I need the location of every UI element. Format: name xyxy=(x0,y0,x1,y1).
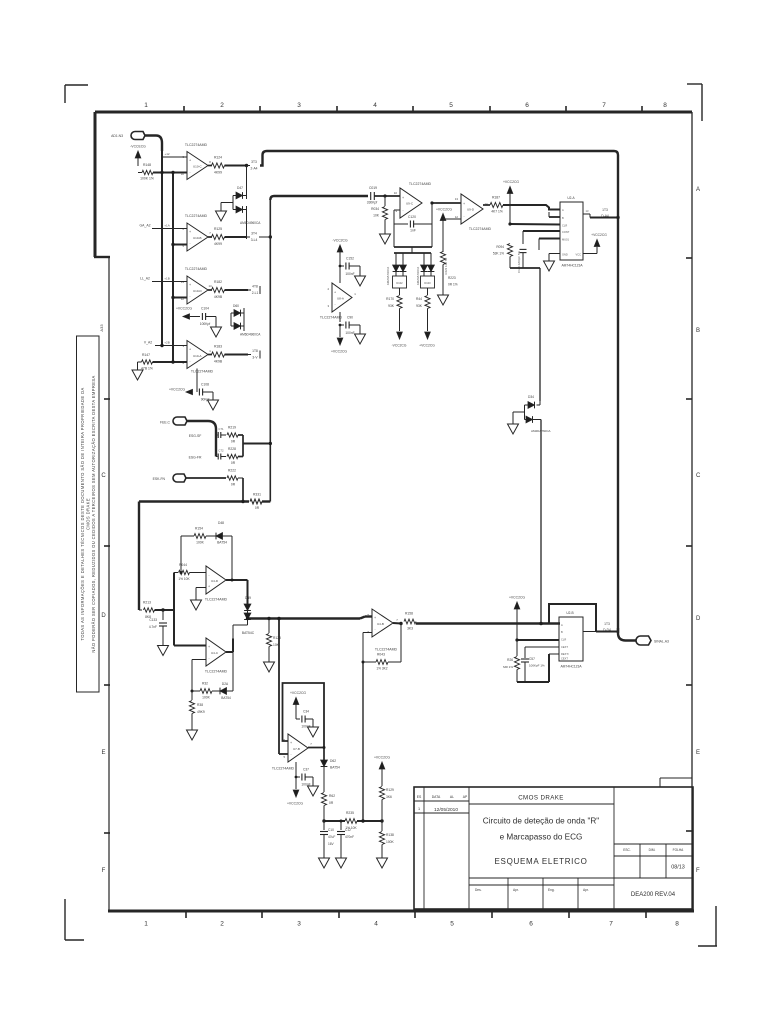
svg-text:R044: R044 xyxy=(179,563,187,567)
svg-text:4K9B: 4K9B xyxy=(214,295,223,299)
wire clamp to trigger node xyxy=(540,420,542,625)
svg-text:93K: 93K xyxy=(416,304,423,308)
diode D62 xyxy=(321,760,328,767)
svg-text:-: - xyxy=(189,170,190,174)
svg-text:e Marcapasso do ECG: e Marcapasso do ECG xyxy=(500,833,583,842)
svg-text:U2-B: U2-B xyxy=(566,611,573,615)
wire R044 to U4-D xyxy=(190,572,207,574)
svg-text:3T4: 3T4 xyxy=(251,232,257,236)
svg-text:10: 10 xyxy=(394,191,398,195)
svg-text:100Kpf: 100Kpf xyxy=(200,322,211,326)
svg-text:R32: R32 xyxy=(202,682,208,686)
wire CONT pin xyxy=(523,230,560,232)
ground D47 xyxy=(216,211,227,221)
op-amp U4-B xyxy=(372,609,393,637)
svg-text:C71: C71 xyxy=(218,427,224,431)
connector SINAL.A3 xyxy=(636,636,651,645)
connector AD1.N3 xyxy=(131,132,145,140)
wire D47 to ground xyxy=(221,202,233,204)
svg-text:SINAL.A3: SINAL.A3 xyxy=(654,640,669,644)
svg-text:+VCC2CG: +VCC2CG xyxy=(331,350,347,354)
svg-text:7: 7 xyxy=(609,921,613,928)
wire clamp rail xyxy=(394,252,431,254)
wire R331 to vertical bus xyxy=(262,500,270,502)
wire U4-B output xyxy=(393,622,401,625)
svg-text:4K99: 4K99 xyxy=(214,171,222,175)
svg-text:100K: 100K xyxy=(386,840,395,844)
svg-text:+: + xyxy=(374,616,376,620)
op-amp U4-D xyxy=(206,566,226,594)
svg-text:1nF: 1nF xyxy=(410,229,416,233)
svg-text:+: + xyxy=(189,159,191,163)
svg-text:B: B xyxy=(696,328,700,334)
wire R125 to node xyxy=(225,236,247,238)
svg-text:Circuito de deteção de ond: Circuito de deteção de onda "R" xyxy=(483,817,600,826)
svg-text:8: 8 xyxy=(675,921,679,928)
wire R170 down xyxy=(399,309,401,332)
svg-text:C37: C37 xyxy=(303,768,309,772)
wire U8-A supply xyxy=(339,266,341,283)
svg-text:+VCC2CG: +VCC2CG xyxy=(591,233,607,237)
resistor R094 xyxy=(507,244,512,257)
svg-text:CMOS DRAKE: CMOS DRAKE xyxy=(518,795,564,802)
wire ESG join vertical xyxy=(242,435,244,457)
wire follower output down xyxy=(323,748,325,761)
wire R228 right xyxy=(238,456,243,458)
svg-text:CLR: CLR xyxy=(562,224,567,228)
ground C10 xyxy=(319,858,330,868)
input bus vertical 2 xyxy=(172,173,174,363)
svg-text:4: 4 xyxy=(373,102,377,109)
svg-text:DEA200 REV.04: DEA200 REV.04 xyxy=(631,892,676,898)
svg-text:D60: D60 xyxy=(233,304,239,308)
svg-text:+: + xyxy=(463,202,465,206)
svg-text:U10-A: U10-A xyxy=(193,354,202,358)
svg-text:C120: C120 xyxy=(408,215,416,219)
svg-text:3: 3 xyxy=(297,102,301,109)
svg-text:U4-D: U4-D xyxy=(211,579,219,583)
svg-text:100K: 100K xyxy=(202,696,211,700)
diode D102 a xyxy=(395,253,397,265)
svg-text:U4-B: U4-B xyxy=(377,622,384,626)
svg-text:TLC2274AMD: TLC2274AMD xyxy=(272,767,295,771)
svg-text:Apr.: Apr. xyxy=(583,888,589,892)
svg-text:C10: C10 xyxy=(328,828,334,832)
wire R124 to node xyxy=(225,165,247,167)
svg-text:0R 1%: 0R 1% xyxy=(448,283,458,287)
svg-text:A33: A33 xyxy=(99,324,104,332)
ground R38 xyxy=(187,730,198,740)
corner mark top-left xyxy=(65,84,88,86)
op-amp U4-C xyxy=(206,638,226,666)
diode D60 b xyxy=(234,323,241,330)
diode array D102 body xyxy=(393,276,407,288)
svg-text:R187: R187 xyxy=(492,196,500,200)
resistor R213 xyxy=(139,609,142,611)
svg-text:U9-C: U9-C xyxy=(406,202,414,206)
resistor R222 xyxy=(227,476,238,480)
diode D34 a xyxy=(539,401,541,405)
svg-text:C57: C57 xyxy=(529,657,535,661)
svg-text:E: E xyxy=(101,750,105,756)
svg-text:R148: R148 xyxy=(143,163,151,167)
capacitor C37 xyxy=(296,776,300,778)
svg-text:D2A: D2A xyxy=(222,682,229,686)
resistor R223 xyxy=(440,252,445,265)
svg-text:2-A4: 2-A4 xyxy=(251,167,258,171)
svg-text:B: B xyxy=(561,630,563,634)
resistor R158 xyxy=(404,619,416,624)
svg-text:R147: R147 xyxy=(142,353,150,357)
svg-text:93K: 93K xyxy=(388,304,395,308)
title block right column top extension xyxy=(660,777,692,779)
signature cells xyxy=(507,878,509,909)
svg-text:R129: R129 xyxy=(386,788,394,792)
svg-text:R043: R043 xyxy=(377,653,385,657)
svg-text:3K3: 3K3 xyxy=(407,627,413,631)
svg-text:-: - xyxy=(189,241,190,245)
svg-text:0R: 0R xyxy=(255,506,260,510)
resistor R182 xyxy=(212,287,225,292)
wire U10-C output to D47 xyxy=(246,166,248,193)
wire inverting input U10-D xyxy=(173,297,187,299)
svg-text:R138: R138 xyxy=(386,833,394,837)
svg-text:100K 1%: 100K 1% xyxy=(140,177,154,181)
svg-text:R183: R183 xyxy=(214,345,222,349)
wire FEE.C xyxy=(187,421,216,457)
wire C108 to ground xyxy=(203,391,213,393)
svg-text:+VCC2CG: +VCC2CG xyxy=(419,344,435,348)
svg-text:TLC2274AMD: TLC2274AMD xyxy=(409,182,432,186)
diode D103 b xyxy=(430,253,432,265)
svg-text:U8-A: U8-A xyxy=(337,297,344,301)
net label 4T8 2-L1 xyxy=(248,289,251,291)
feedback resistor R32 xyxy=(200,689,212,694)
wire U4-C output xyxy=(226,651,233,653)
resistor R044 xyxy=(179,570,190,574)
svg-text:R331: R331 xyxy=(253,493,261,497)
wire follower input xyxy=(279,753,288,755)
resistor R228 xyxy=(221,456,226,458)
svg-text:D47: D47 xyxy=(237,186,243,190)
svg-text:8: 8 xyxy=(663,102,667,109)
svg-text:-: - xyxy=(189,359,190,363)
svg-text:2: 2 xyxy=(220,102,224,109)
svg-text:TLC2274AMD: TLC2274AMD xyxy=(185,143,208,147)
svg-text:AM2DA760CA: AM2DA760CA xyxy=(416,267,420,285)
svg-text:R222: R222 xyxy=(228,469,236,473)
svg-text:3-V: 3-V xyxy=(252,356,258,360)
bottom column ticks xyxy=(185,911,187,918)
IC U2-A box xyxy=(560,202,583,260)
power arrow +VCC2CG down xyxy=(425,332,431,339)
svg-text:+: + xyxy=(189,283,191,287)
wire C90 ground xyxy=(350,324,361,326)
wire C104 to ground xyxy=(206,316,216,318)
svg-text:C133: C133 xyxy=(149,618,157,622)
svg-text:F: F xyxy=(696,868,700,874)
wire C019 to U9-C xyxy=(375,195,401,197)
diode D47 b xyxy=(236,206,243,213)
resistor R124 xyxy=(212,163,225,168)
svg-text:D34: D34 xyxy=(528,395,534,399)
svg-text:4K9B: 4K9B xyxy=(214,360,223,364)
diode array D103 body xyxy=(421,276,435,288)
wire R187 to U2-A pin A xyxy=(503,205,560,210)
ground U2-A xyxy=(544,261,555,271)
resistor R123 xyxy=(268,619,270,634)
wire pacing node xyxy=(324,820,345,822)
diode D103 a xyxy=(423,253,425,265)
svg-text:ES: ES xyxy=(417,795,422,799)
wire U4-C feedback down xyxy=(232,652,234,691)
svg-text:R44: R44 xyxy=(416,297,422,301)
svg-text:AM6D4960CA: AM6D4960CA xyxy=(240,333,261,337)
junction dot node ECG1 xyxy=(245,164,248,167)
corner mark bottom-right xyxy=(715,906,717,946)
svg-text:AP: AP xyxy=(463,795,468,799)
svg-text:14: 14 xyxy=(208,284,212,288)
svg-text:FEE.C: FEE.C xyxy=(160,421,171,425)
left notes box xyxy=(77,336,100,692)
wire U4-C inverting input xyxy=(192,659,206,661)
wire R158 to U2-B xyxy=(416,622,560,624)
svg-text:C104: C104 xyxy=(201,307,209,311)
corner mark bottom-left xyxy=(64,899,66,940)
top column ticks xyxy=(183,106,185,112)
svg-text:C152: C152 xyxy=(346,257,354,261)
wire C34 ground xyxy=(306,718,314,720)
op-amp U8-A xyxy=(332,283,352,312)
ground C90 xyxy=(355,334,366,344)
svg-text:C90: C90 xyxy=(347,316,353,320)
svg-text:D: D xyxy=(101,613,106,619)
junction feedback U9-C xyxy=(430,201,433,204)
capacitor C104 xyxy=(201,313,203,320)
wire U7-B below supply xyxy=(295,762,297,777)
svg-text:R034: R034 xyxy=(371,207,379,211)
svg-text:LL_A2: LL_A2 xyxy=(140,277,150,281)
wire R183 to net label xyxy=(225,354,249,356)
diode D47 a xyxy=(236,192,243,199)
input bus vertical 1 xyxy=(161,143,163,345)
svg-text:R26: R26 xyxy=(507,658,513,662)
svg-text:1T8: 1T8 xyxy=(252,349,258,353)
svg-text:D-D4: D-D4 xyxy=(603,628,611,632)
svg-text:C: C xyxy=(101,473,106,479)
capacitor C57 xyxy=(521,658,529,660)
svg-text:V_A2: V_A2 xyxy=(144,341,152,345)
svg-text:1T3: 1T3 xyxy=(604,622,610,626)
svg-text:TLC2274AMD: TLC2274AMD xyxy=(469,227,492,231)
svg-text:470nF: 470nF xyxy=(345,835,354,839)
svg-text:+: + xyxy=(189,348,191,352)
svg-text:10K: 10K xyxy=(373,214,380,218)
wire R182 to net label xyxy=(225,289,249,291)
svg-text:+2B: +2B xyxy=(164,341,169,345)
svg-text:R158: R158 xyxy=(405,612,413,616)
power arrow follower xyxy=(293,698,299,705)
svg-text:E: E xyxy=(696,750,700,756)
svg-text:C019: C019 xyxy=(369,186,377,190)
ground C108 xyxy=(208,400,219,410)
svg-text:CMOS DRAKE: CMOS DRAKE xyxy=(86,498,91,530)
svg-text:TLC2274AMD: TLC2274AMD xyxy=(205,670,228,674)
wire threshold to inverting input xyxy=(443,218,461,220)
wire R26 down xyxy=(516,670,518,683)
net label 3T4 3-L4 xyxy=(247,236,251,238)
wire U8-A down supply arrow xyxy=(339,325,341,337)
power arrow mid xyxy=(183,314,190,319)
title center bottom dividers xyxy=(469,877,614,879)
svg-text:+: + xyxy=(189,230,191,234)
wire non-inverting input U10-A xyxy=(155,345,187,347)
wire D49 to node xyxy=(247,620,249,626)
svg-text:AM6D4960CA: AM6D4960CA xyxy=(240,221,261,225)
power arrow -VCCECG xyxy=(135,151,141,158)
capacitor C71 xyxy=(216,434,218,436)
svg-text:C34: C34 xyxy=(303,710,309,714)
svg-text:TLC2274AMD: TLC2274AMD xyxy=(191,370,214,374)
resistor R125 xyxy=(212,234,225,239)
wire R034 to ground xyxy=(384,220,386,235)
svg-text:100K: 100K xyxy=(196,541,205,545)
svg-text:+1B: +1B xyxy=(164,277,169,281)
svg-text:5: 5 xyxy=(449,102,453,109)
svg-text:+: + xyxy=(208,584,210,588)
svg-text:CEXT: CEXT xyxy=(561,645,568,649)
wire R223 to ground xyxy=(442,265,444,296)
ground C152 xyxy=(355,276,366,286)
svg-text:U4-C: U4-C xyxy=(211,651,219,655)
svg-text:-: - xyxy=(208,656,209,660)
svg-text:R124: R124 xyxy=(214,156,222,160)
wire right vertical bus xyxy=(614,151,618,633)
svg-text:D-A4: D-A4 xyxy=(601,214,609,218)
wire follower feedback loop xyxy=(283,683,325,748)
svg-text:AL: AL xyxy=(450,795,454,799)
frame bottom border xyxy=(108,910,694,913)
wire non-inverting input U10-D xyxy=(152,281,187,283)
svg-text:-: - xyxy=(334,302,335,306)
op-amp U7-B xyxy=(288,734,308,762)
svg-text:-: - xyxy=(208,573,209,577)
svg-text:U9-D: U9-D xyxy=(467,208,475,212)
svg-text:R170: R170 xyxy=(386,297,394,301)
wire D34 left join xyxy=(525,404,529,406)
svg-text:C108: C108 xyxy=(201,383,209,387)
wire U4-D output down xyxy=(247,580,249,604)
left row ticks xyxy=(104,398,110,400)
svg-text:6: 6 xyxy=(529,921,533,928)
ground C12 xyxy=(336,858,347,868)
connector ESK-FN xyxy=(173,474,186,482)
wire R129 to node xyxy=(381,800,383,822)
svg-text:A: A xyxy=(562,208,564,212)
svg-text:-: - xyxy=(374,627,375,631)
svg-text:TLC2274AMD: TLC2274AMD xyxy=(320,316,343,320)
diode D34 b xyxy=(526,416,533,423)
wire D62 down xyxy=(323,767,325,793)
resistor R183 xyxy=(212,352,225,357)
svg-text:CONT: CONT xyxy=(562,230,570,234)
op-amp U9-D xyxy=(461,194,483,224)
wire C37 ground xyxy=(306,776,314,778)
svg-text:0R: 0R xyxy=(231,483,236,487)
svg-text:0R: 0R xyxy=(231,440,236,444)
svg-text:R154: R154 xyxy=(195,527,203,531)
resistor R129 xyxy=(379,787,384,800)
power arrow down follower xyxy=(293,790,299,797)
svg-text:MR 1%: MR 1% xyxy=(503,665,513,669)
svg-text:TLC2274AMD: TLC2274AMD xyxy=(375,648,398,652)
svg-text:R235: R235 xyxy=(346,811,354,815)
svg-text:REXT/: REXT/ xyxy=(561,652,569,656)
wire U2-B output xyxy=(583,631,596,633)
svg-text:2-L1: 2-L1 xyxy=(252,291,259,295)
svg-text:5: 5 xyxy=(450,921,454,928)
svg-text:D: D xyxy=(696,616,701,622)
svg-text:+VCC2CG: +VCC2CG xyxy=(290,691,306,695)
svg-text:U2-A: U2-A xyxy=(567,196,575,200)
resistor R148 xyxy=(142,170,153,174)
svg-text:R62: R62 xyxy=(329,794,335,798)
svg-text:NÃO PODERÃO SER COPIADOS,: NÃO PODERÃO SER COPIADOS, REDUZIDOS OU C… xyxy=(91,375,96,652)
svg-text:R213: R213 xyxy=(143,601,151,605)
resistor R170 xyxy=(399,288,401,295)
svg-text:ESG-FR: ESG-FR xyxy=(189,456,202,460)
wire U2-A output Q xyxy=(583,213,590,215)
svg-text:-: - xyxy=(463,214,464,218)
wire U4-D output xyxy=(226,579,248,581)
capacitor C72 xyxy=(216,456,218,458)
svg-text:FOLHA: FOLHA xyxy=(673,848,685,852)
right column dividers xyxy=(614,843,692,845)
power arrow U8-A xyxy=(337,245,343,252)
junction dots input buses xyxy=(160,171,163,174)
ground R034 xyxy=(380,234,391,244)
svg-text:+1A: +1A xyxy=(164,224,169,228)
svg-text:B: B xyxy=(562,216,564,220)
diode D49 b xyxy=(247,611,249,614)
op-amp U10-D xyxy=(187,276,208,304)
svg-text:47uF: 47uF xyxy=(328,835,335,839)
wire R043 loop xyxy=(388,661,401,663)
wire main lower bus xyxy=(139,500,249,502)
svg-text:AD1.N3: AD1.N3 xyxy=(111,134,123,138)
wire ESG to bus xyxy=(243,443,270,445)
svg-text:R125: R125 xyxy=(214,227,222,231)
svg-text:VCC: VCC xyxy=(576,253,582,257)
svg-text:-: - xyxy=(189,294,190,298)
svg-text:10: 10 xyxy=(181,172,185,176)
power arrow below U10-A xyxy=(186,389,193,394)
svg-text:AM74HC123A: AM74HC123A xyxy=(560,665,582,669)
wire U9-C to U9-D xyxy=(436,202,461,204)
svg-text:A: A xyxy=(696,187,700,193)
wire U10-A to C108 xyxy=(196,369,198,393)
svg-text:GA_A2: GA_A2 xyxy=(140,224,151,228)
wire output U10-B xyxy=(208,236,212,238)
wire C12 ground xyxy=(340,835,342,858)
wire C152 ground xyxy=(350,265,361,267)
wire output U10-C xyxy=(208,165,212,167)
wire lower bus left vertical xyxy=(138,502,140,611)
wire second horizontal bus xyxy=(270,196,368,200)
svg-text:BAT54: BAT54 xyxy=(217,541,227,545)
svg-text:0R: 0R xyxy=(329,801,334,805)
svg-text:330Kpf: 330Kpf xyxy=(367,201,378,205)
